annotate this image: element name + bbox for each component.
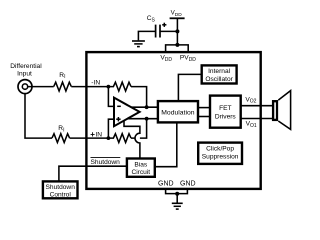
VDD pin tab — [166, 45, 189, 52]
wire +IN to op-amp — [108, 119, 114, 138]
svg-text:Suppression: Suppression — [202, 154, 239, 161]
FET drivers box — [210, 96, 241, 128]
wire bias to op-amp with crossover hop — [124, 121, 140, 159]
feedback resistor top — [108, 82, 131, 91]
op-amp plus sign — [116, 117, 120, 121]
wire VO2 output — [241, 105, 273, 107]
svg-text:Differential: Differential — [10, 63, 42, 70]
wire VO1 output — [241, 118, 273, 120]
wire RI top to -IN node — [71, 86, 108, 88]
wire RI bottom to +IN node — [70, 137, 109, 139]
node VDD-CS junction — [175, 29, 179, 33]
resistor RI bottom — [52, 134, 70, 143]
svg-text:GND: GND — [180, 181, 196, 188]
wire modulation to bias — [155, 122, 177, 166]
wire oscillator to modulation — [178, 74, 201, 101]
modulation box — [158, 101, 198, 122]
wire modulation to FET bottom — [198, 116, 210, 118]
shutdown control box — [43, 181, 78, 198]
svg-text:Input: Input — [17, 71, 32, 78]
wire GND pins — [166, 189, 188, 194]
node VDD pin junction — [175, 43, 179, 47]
node +IN junction — [107, 136, 111, 140]
ground symbol near CS — [132, 41, 145, 47]
node GND junction — [175, 192, 179, 196]
svg-text:Control: Control — [50, 192, 72, 199]
svg-text:Shutdown: Shutdown — [91, 159, 121, 166]
wire GND to ground — [176, 194, 178, 203]
wire connector down to +IN row — [25, 94, 52, 139]
svg-text:IN: IN — [95, 132, 102, 139]
node feedback top junction — [145, 105, 149, 109]
svg-text:Internal: Internal — [208, 68, 231, 75]
wire op-amp out bottom to modulation — [127, 118, 158, 120]
svg-text:Modulation: Modulation — [161, 109, 194, 116]
svg-text:Drivers: Drivers — [215, 113, 237, 120]
wire connector to RI top — [28, 86, 54, 88]
svg-text:Circuit: Circuit — [131, 169, 150, 176]
svg-text:FET: FET — [219, 105, 231, 112]
wire modulation to FET top — [198, 107, 210, 109]
node feedback bottom junction — [145, 117, 149, 121]
VDD supply rail — [170, 18, 185, 45]
bias circuit box — [127, 159, 155, 177]
capacitor CS — [156, 25, 160, 38]
capacitor plus sign — [162, 23, 166, 27]
wire CS right plate to VDD node — [160, 30, 177, 32]
wire shutdown control to bias — [59, 166, 127, 181]
IC outline U1 — [86, 52, 260, 189]
op-amp minus sign — [117, 105, 121, 107]
node -IN junction — [107, 85, 111, 89]
internal oscillator box — [202, 65, 237, 83]
ground symbol bottom — [172, 203, 183, 209]
svg-text:GND: GND — [158, 181, 174, 188]
op-amp U2 — [114, 98, 140, 127]
resistor RI top — [54, 82, 72, 91]
svg-text:Click/Pop: Click/Pop — [206, 145, 234, 152]
wire op-amp out top to modulation — [131, 106, 158, 108]
click/pop suppression box — [198, 143, 242, 164]
wire feedback top to output — [131, 87, 147, 108]
feedback resistor bottom — [108, 134, 131, 143]
svg-text:Oscillator: Oscillator — [205, 76, 233, 83]
wire feedback bottom to output — [131, 119, 147, 138]
speaker LS1 — [273, 91, 291, 130]
svg-text:Bias: Bias — [134, 162, 148, 169]
svg-text:Shutdown: Shutdown — [46, 184, 76, 191]
connector J1 — [18, 80, 32, 94]
wire CS left plate to ground — [138, 31, 155, 40]
svg-text:-IN: -IN — [91, 80, 100, 87]
wire -IN to op-amp — [108, 87, 114, 107]
